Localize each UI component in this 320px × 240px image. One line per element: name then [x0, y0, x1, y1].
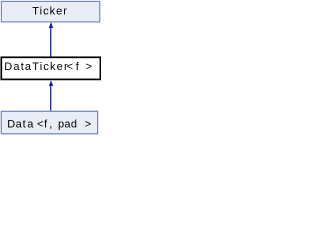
class box Data< f, pad > [1, 111, 97, 134]
svg-text:Data< f, pad >: Data< f, pad > [7, 119, 91, 131]
class box DataTicker< f > [1, 57, 100, 79]
svg-text:Ticker: Ticker [32, 5, 67, 17]
inheritance arrow DataTicker to Ticker [49, 22, 53, 57]
inheritance arrow Data to DataTicker [49, 80, 53, 110]
class box Ticker [1, 1, 99, 22]
svg-text:DataTicker: DataTicker [4, 61, 68, 73]
svg-text:>: > [86, 61, 92, 73]
svg-text:<: < [67, 61, 73, 73]
